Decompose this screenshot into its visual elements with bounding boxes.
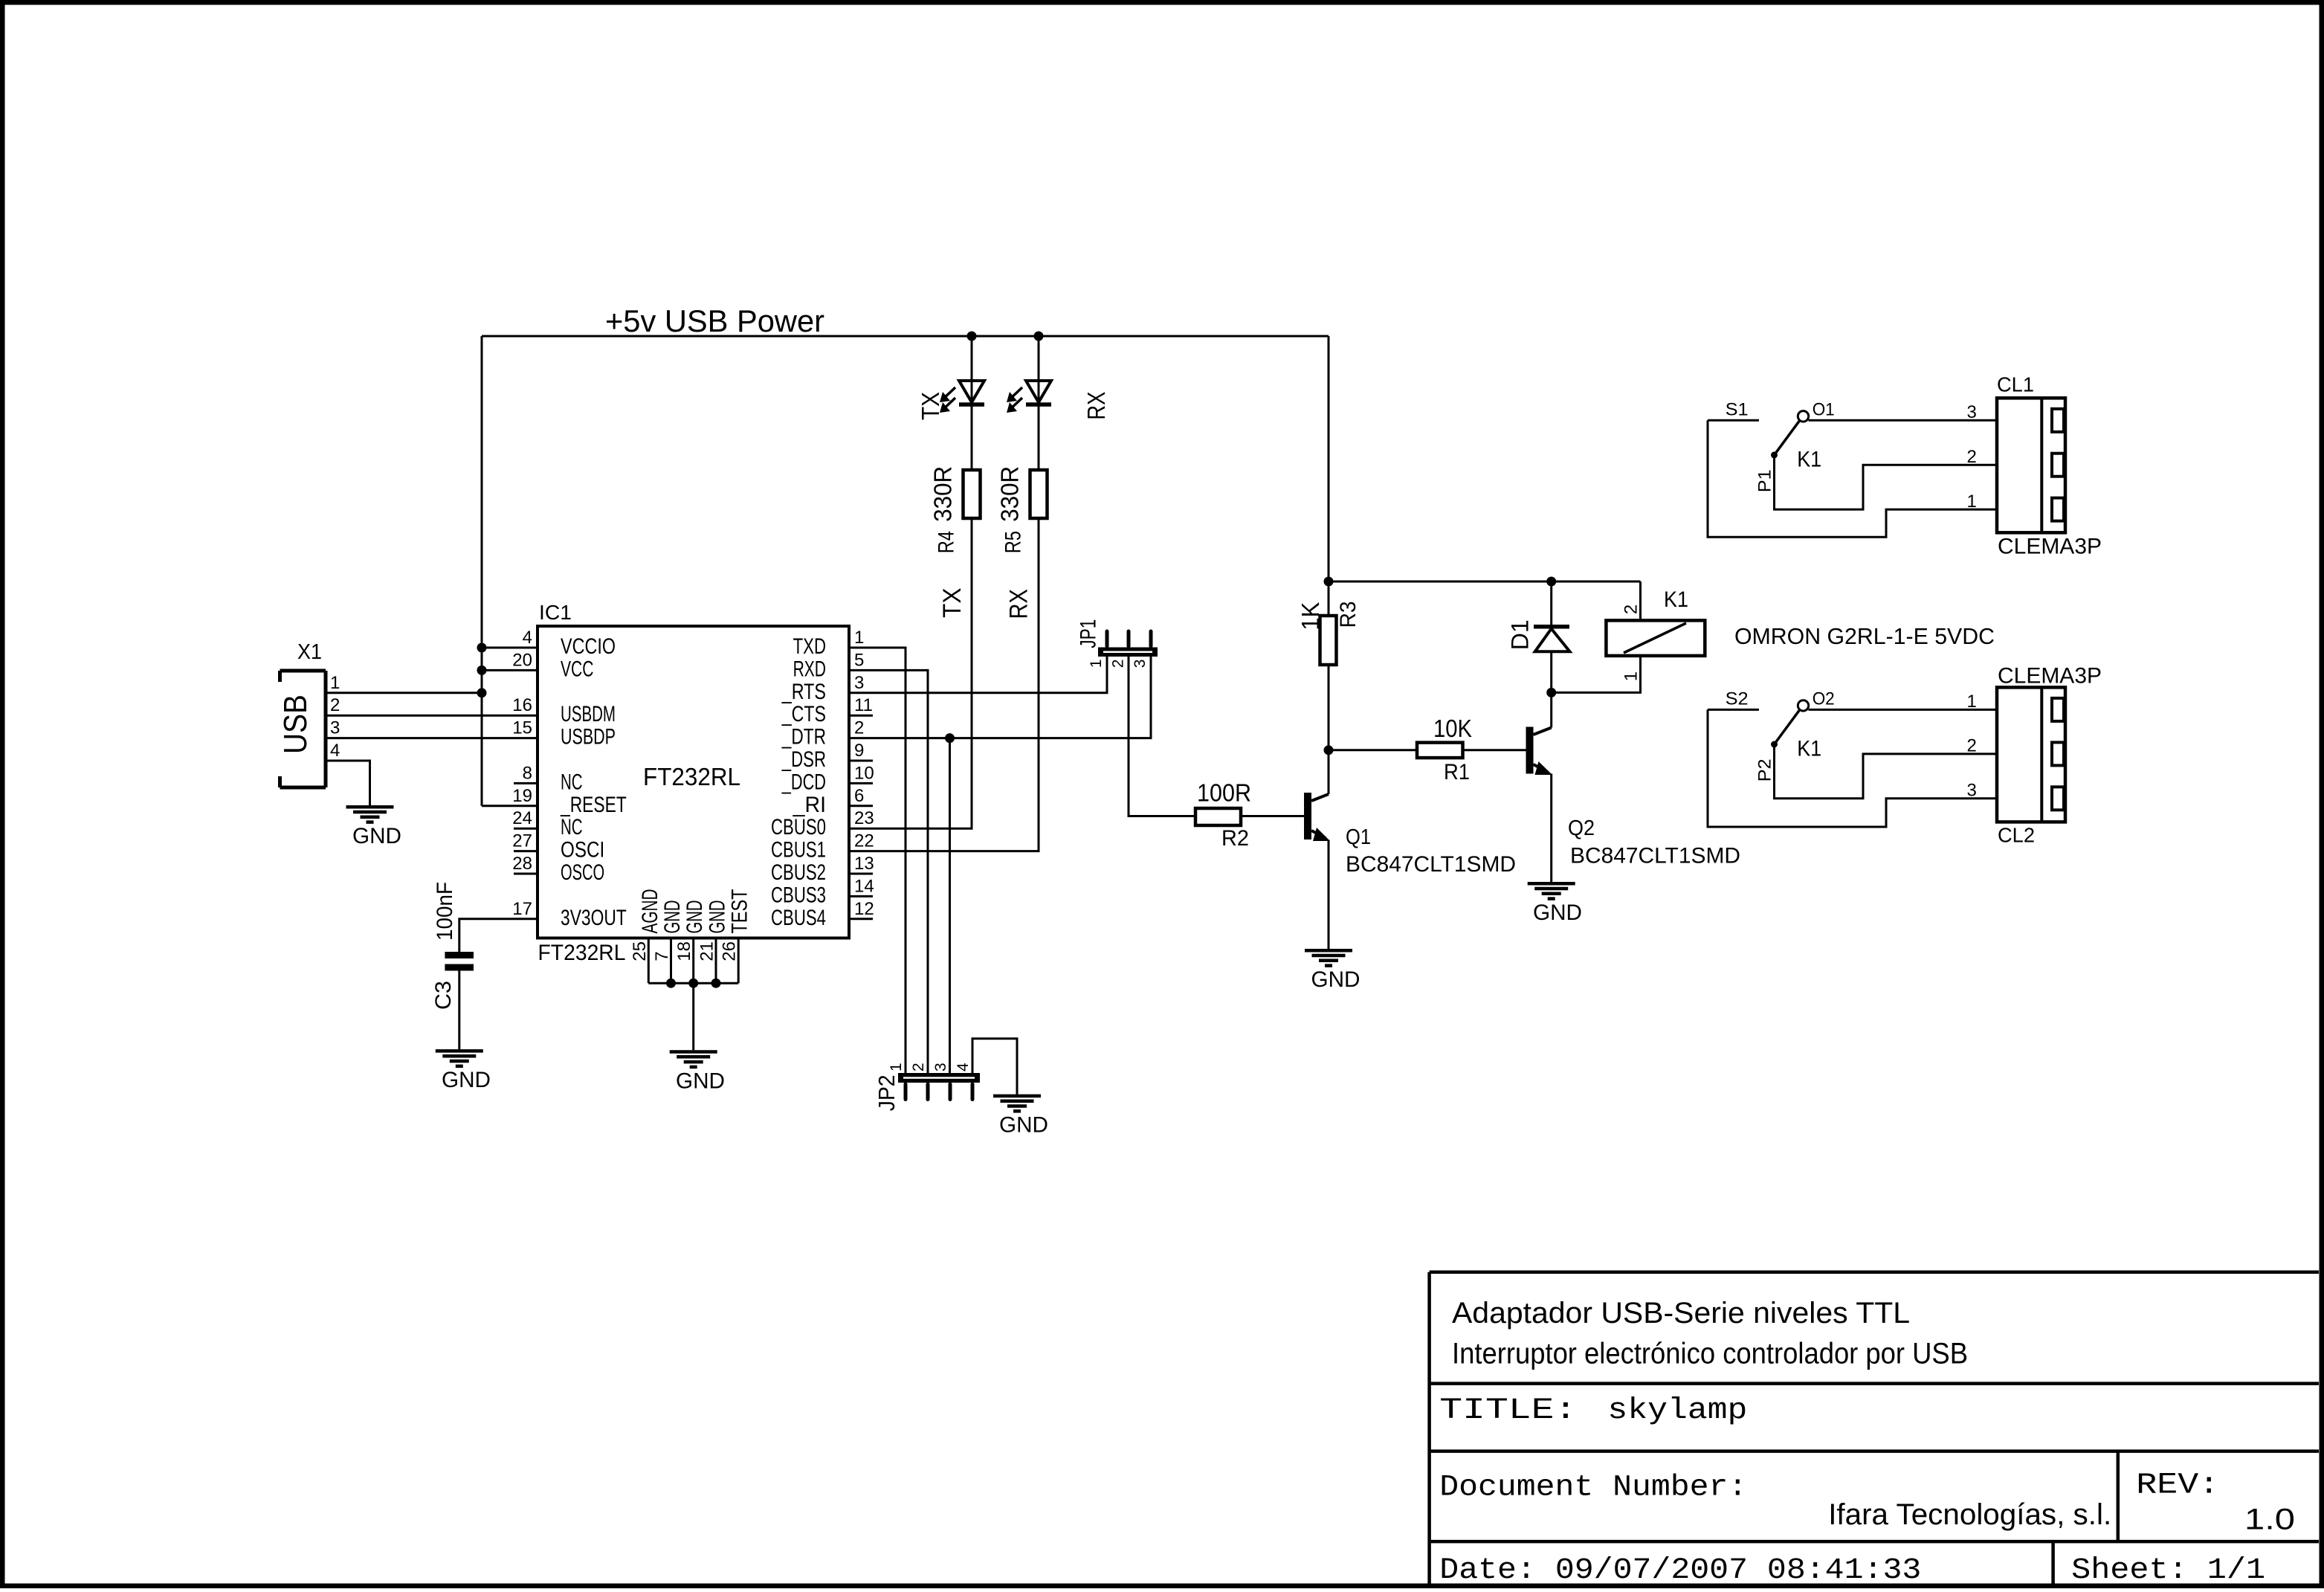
svg-text:Adaptador USB-Serie niveles TT: Adaptador USB-Serie niveles TTL: [1452, 1297, 1910, 1330]
svg-text:O1: O1: [1813, 400, 1835, 420]
svg-text:GND: GND: [1311, 967, 1360, 992]
wire RXD to JP2 pin2: [849, 670, 928, 1073]
svg-text:R1: R1: [1444, 760, 1470, 784]
transistor Q2 BC847CLT1SMD: [1526, 727, 1741, 868]
svg-text:GND: GND: [660, 900, 685, 934]
svg-text:CL1: CL1: [1997, 373, 2034, 396]
svg-text:22: 22: [854, 831, 874, 851]
svg-text:BC847CLT1SMD: BC847CLT1SMD: [1570, 843, 1740, 868]
svg-text:20: 20: [512, 650, 532, 670]
wire R3 bottom to Q1 collector node: [1328, 665, 1330, 750]
ground GND under Q2: [1528, 883, 1582, 925]
svg-text:K1: K1: [1797, 447, 1821, 471]
wire Q2 collector: [1550, 692, 1552, 727]
svg-text:1: 1: [330, 673, 340, 693]
ground GND under C3: [436, 1051, 491, 1092]
svg-text:1.0: 1.0: [2244, 1504, 2295, 1536]
svg-text:27: 27: [512, 831, 532, 851]
svg-text:3: 3: [932, 1063, 949, 1071]
svg-text:Ifara Tecnologías, s.l.: Ifara Tecnologías, s.l.: [1828, 1498, 2111, 1531]
resistor R2 100R: [1195, 779, 1251, 851]
IC1 pin 23 CBUS0: [771, 808, 874, 839]
svg-text:RX: RX: [1082, 392, 1110, 420]
wire +5v rail right drop to R3 column: [1328, 336, 1330, 616]
svg-text:4: 4: [955, 1063, 972, 1071]
svg-text:R3: R3: [1336, 601, 1360, 628]
svg-text:P1: P1: [1755, 469, 1775, 492]
svg-text:9: 9: [854, 741, 864, 761]
svg-text:28: 28: [512, 854, 532, 874]
junction R3 column to relay line: [1324, 577, 1334, 587]
svg-text:3: 3: [1967, 402, 1977, 422]
LED TX label: [917, 392, 944, 420]
junction on rail at TX LED column: [967, 332, 977, 341]
connector JP2 pin 1: [888, 1063, 905, 1071]
svg-text:CBUS1: CBUS1: [771, 838, 826, 863]
resistor R3 1K: [1297, 601, 1360, 665]
wire R2 to Q1 base: [1241, 815, 1304, 817]
svg-text:1: 1: [1088, 660, 1105, 668]
svg-text:IC1: IC1: [539, 601, 572, 624]
svg-text:12: 12: [854, 899, 874, 919]
LED RX label: [1082, 392, 1110, 420]
ground GND under IC1: [670, 1052, 725, 1094]
svg-text:TITLE:: TITLE:: [1439, 1394, 1577, 1428]
svg-text:3: 3: [330, 718, 340, 738]
svg-text:19: 19: [512, 786, 532, 806]
connector CL2 pin 3: [1967, 781, 1977, 801]
IC1 pin 15 USBDP: [512, 718, 616, 750]
svg-text:3V3OUT: 3V3OUT: [561, 906, 627, 930]
wire R3 top from rail: [1328, 581, 1330, 616]
svg-text:NC: NC: [561, 815, 583, 839]
svg-text:CLEMA3P: CLEMA3P: [1998, 663, 2102, 688]
svg-text:CBUS2: CBUS2: [771, 860, 826, 885]
svg-text:+5v USB Power: +5v USB Power: [605, 303, 824, 338]
svg-text:RXD: RXD: [793, 657, 826, 681]
svg-text:USBDP: USBDP: [561, 725, 616, 750]
svg-text:100nF: 100nF: [433, 882, 457, 941]
IC1 pin 4 VCCIO: [523, 628, 616, 659]
wire JP1 pin2 to R2: [1129, 657, 1195, 816]
svg-text:FT232RL: FT232RL: [538, 941, 626, 965]
svg-text:TEST: TEST: [728, 889, 752, 934]
svg-text:O2: O2: [1813, 689, 1835, 709]
svg-text:1: 1: [1967, 692, 1977, 712]
connector JP1 pin 1: [1088, 660, 1105, 668]
svg-text:USB: USB: [277, 695, 314, 754]
wire R5 to CBUS1: [849, 518, 1039, 851]
title block description line 2: [1452, 1337, 1968, 1370]
svg-text:_CTS: _CTS: [781, 702, 826, 726]
net label TX: [938, 588, 966, 619]
svg-text:REV:: REV:: [2136, 1469, 2219, 1503]
svg-text:13: 13: [854, 854, 874, 874]
svg-text:_RTS: _RTS: [781, 680, 826, 704]
svg-text:2: 2: [1967, 736, 1977, 756]
connector X1 pin 3: [330, 718, 340, 738]
connector X1 pin 1: [330, 673, 340, 693]
wire VCCIO feed: [482, 647, 538, 649]
node +5v USB Power net label: [605, 303, 824, 338]
IC1 pin 11 _CTS: [781, 695, 873, 726]
svg-text:4: 4: [523, 628, 532, 648]
IC1 pin 14 CBUS3: [771, 876, 874, 907]
wire X1 pin4 to ground: [326, 761, 370, 805]
wire LED to R5: [1038, 406, 1040, 470]
svg-text:3: 3: [1132, 660, 1149, 668]
svg-text:P2: P2: [1755, 758, 1775, 782]
IC1 pin 5 RXD: [793, 650, 865, 681]
wire JP2 pin4 to ground: [972, 1039, 1017, 1095]
svg-text:100R: 100R: [1197, 779, 1251, 807]
svg-text:USBDM: USBDM: [561, 702, 616, 726]
op-amp U1 : IC1 FT232RL box: [538, 601, 849, 965]
IC1 pin 3 _RTS: [781, 673, 864, 704]
svg-text:CBUS3: CBUS3: [771, 883, 826, 907]
wire node to R1: [1329, 749, 1417, 751]
connector JP2: [874, 1073, 980, 1111]
svg-text:GND: GND: [352, 824, 401, 848]
junction ground bus: [666, 979, 676, 988]
connector CL1 CLEMA3P: [1997, 373, 2102, 559]
wire S2 loop to CL2: [1708, 709, 1997, 827]
wire relay top line: [1329, 581, 1641, 583]
wire K1 pin1 to Q2 collector: [1552, 656, 1641, 693]
svg-text:1K: 1K: [1297, 602, 1324, 631]
svg-text:Q1: Q1: [1346, 825, 1371, 849]
wire LED to R4: [971, 406, 973, 470]
svg-text:CLEMA3P: CLEMA3P: [1998, 534, 2102, 558]
svg-text:Date: 09/07/2007 08:41:33: Date: 09/07/2007 08:41:33: [1439, 1554, 1921, 1588]
IC1 pin 22 CBUS1: [771, 831, 874, 863]
svg-text:Interruptor electrónico contro: Interruptor electrónico controlador por …: [1452, 1337, 1968, 1370]
svg-text:24: 24: [512, 808, 532, 828]
connector CL2 pin 1: [1967, 692, 1977, 712]
switch pivot pin P1: [1755, 469, 1775, 492]
IC1 pin 20 VCC: [512, 650, 593, 681]
wire +5v rail horizontal: [482, 335, 1329, 338]
title block frame: [1430, 1272, 2319, 1586]
svg-text:TX: TX: [917, 392, 944, 420]
svg-text:2: 2: [1110, 660, 1127, 668]
svg-text:2: 2: [330, 695, 340, 715]
svg-text:AGND: AGND: [638, 889, 662, 934]
switch blade K1: [1771, 710, 1821, 761]
connector CL1 pin 1: [1967, 492, 1977, 512]
junction ground bus: [688, 979, 698, 988]
wire O2 to CL2 top pin: [1809, 709, 1998, 711]
wire _RESET feed: [482, 805, 538, 807]
wire S1 loop to CL1: [1708, 420, 1997, 537]
wire _DTR to JP1 pin3: [849, 657, 1151, 738]
IC1 pin 27 OSCI: [512, 831, 604, 863]
IC1 pin 7 GND: [652, 900, 685, 984]
svg-text:VCC: VCC: [561, 657, 593, 681]
relay K1 pin 1: [1621, 671, 1642, 681]
svg-text:K1: K1: [1797, 736, 1821, 761]
svg-text:skylamp: skylamp: [1607, 1394, 1747, 1428]
wire +5v rail left drop to VCC column: [481, 336, 483, 806]
IC1 pin 17 3V3OUT: [512, 899, 627, 930]
svg-text:23: 23: [854, 808, 874, 828]
svg-text:_DSR: _DSR: [781, 747, 826, 772]
wire X1 pin3 to USBDP: [326, 737, 538, 739]
wire 3V3OUT to C3: [459, 919, 538, 952]
svg-text:25: 25: [630, 941, 650, 961]
title block Sheet field: [2071, 1554, 2265, 1588]
ground GND under JP2: [993, 1096, 1048, 1138]
connector X1 pin 4: [330, 741, 340, 761]
svg-text:26: 26: [720, 941, 740, 961]
svg-text:CL2: CL2: [1998, 823, 2035, 846]
label OMRON relay type: [1734, 623, 1995, 649]
connector JP2 pin 2: [910, 1063, 927, 1071]
svg-text:330R: 330R: [929, 466, 957, 522]
IC1 pin 10 _DCD: [781, 763, 874, 794]
wire _DTR branch to JP2 pin3: [949, 738, 951, 1073]
wire P1 to CL1 middle pin: [1775, 455, 1998, 509]
svg-text:2: 2: [1621, 605, 1642, 614]
wire Q2 emitter to ground: [1550, 774, 1552, 883]
title block Document Number field: [1439, 1471, 2111, 1531]
svg-text:OSCI: OSCI: [561, 838, 604, 863]
wire +5v to LED RX: [1038, 336, 1040, 381]
svg-text:OMRON G2RL-1-E 5VDC: OMRON G2RL-1-E 5VDC: [1734, 623, 1995, 649]
IC1 pin 21 GND: [697, 900, 730, 984]
svg-text:R5: R5: [1001, 531, 1026, 553]
svg-text:8: 8: [523, 763, 532, 783]
switch contact O1: [1798, 400, 1834, 422]
connector JP1: [1076, 619, 1158, 657]
svg-text:1: 1: [1967, 492, 1977, 512]
svg-text:_RESET: _RESET: [560, 793, 627, 817]
svg-text:14: 14: [854, 876, 874, 896]
capacitor C3 100nF: [431, 882, 474, 1010]
svg-text:BC847CLT1SMD: BC847CLT1SMD: [1346, 852, 1516, 877]
junction VCC node at VCC row: [477, 666, 487, 675]
svg-text:CBUS4: CBUS4: [771, 906, 826, 930]
svg-text:1: 1: [888, 1063, 905, 1071]
relay K1 pin 2: [1621, 605, 1642, 614]
resistor R1 10K: [1417, 715, 1472, 784]
wire TXD to JP2 pin1: [849, 648, 906, 1073]
svg-text:OSCO: OSCO: [561, 860, 604, 885]
title block TITLE field: [1439, 1394, 1747, 1428]
svg-text:TX: TX: [938, 588, 966, 619]
svg-text:K1: K1: [1664, 587, 1688, 612]
wire Q1 emitter to ground: [1328, 840, 1330, 950]
svg-text:Q2: Q2: [1568, 816, 1595, 840]
junction VCC node at VCCIO row: [477, 643, 487, 653]
wire K1 pin2 drop: [1639, 581, 1642, 620]
svg-text:16: 16: [512, 695, 532, 715]
svg-text:FT232RL: FT232RL: [643, 763, 740, 790]
svg-text:18: 18: [674, 941, 694, 961]
resistor R4 330R: [929, 466, 981, 553]
svg-text:X1: X1: [297, 640, 322, 664]
IC1 pin 9 _DSR: [781, 741, 873, 772]
wire O1 to CL1 top pin: [1809, 419, 1998, 422]
svg-text:JP2: JP2: [874, 1074, 900, 1111]
junction Q1 collector / R1 node: [1324, 745, 1334, 755]
diode D1: [1507, 581, 1570, 692]
svg-text:VCCIO: VCCIO: [561, 634, 616, 659]
switch blade K1: [1771, 421, 1821, 472]
connector CL2 pin 2: [1967, 736, 1977, 756]
net label RX: [1005, 589, 1033, 619]
switch S1 pole stub: [1708, 400, 1759, 421]
LED TX: [940, 381, 984, 413]
wire IC1 ground bus: [648, 983, 738, 1050]
connector CL1 pin 2: [1967, 447, 1977, 467]
svg-text:6: 6: [854, 786, 864, 806]
svg-text:Sheet: 1/1: Sheet: 1/1: [2071, 1554, 2265, 1588]
transistor Q1 BC847CLT1SMD: [1304, 793, 1516, 877]
connector JP2 pin 4: [955, 1063, 972, 1071]
svg-text:_RI: _RI: [793, 793, 826, 817]
junction ground bus: [711, 979, 721, 988]
wire P2 to CL2 middle pin: [1775, 744, 1998, 799]
connector JP1 pin 3: [1132, 660, 1149, 668]
wire R4 to CBUS0: [849, 518, 972, 828]
switch S2 pole stub: [1708, 689, 1759, 710]
svg-text:11: 11: [854, 695, 873, 715]
svg-text:17: 17: [512, 899, 532, 919]
svg-text:TXD: TXD: [793, 634, 826, 659]
wire VCC feed: [482, 669, 538, 671]
svg-text:NC: NC: [561, 770, 583, 794]
junction D1 bottom: [1546, 688, 1556, 697]
svg-text:15: 15: [512, 718, 532, 738]
connector CL1 pin 3: [1967, 402, 1977, 422]
svg-text:S2: S2: [1726, 689, 1749, 709]
svg-text:7: 7: [652, 951, 672, 961]
svg-text:_DTR: _DTR: [781, 725, 826, 750]
svg-text:Document Number:: Document Number:: [1439, 1471, 1747, 1504]
svg-text:2: 2: [910, 1063, 927, 1071]
svg-text:GND: GND: [706, 900, 730, 934]
svg-text:2: 2: [1967, 447, 1977, 467]
IC1 pin 8 NC: [514, 763, 583, 794]
title block description line 1: [1452, 1297, 1910, 1330]
svg-text:GND: GND: [682, 900, 707, 934]
IC1 pin 26 TEST: [720, 889, 752, 984]
wire R1 to Q2 base: [1463, 749, 1526, 751]
svg-text:JP1: JP1: [1076, 619, 1100, 648]
IC1 pin 1 TXD: [793, 628, 865, 659]
connector X1 pin 2: [330, 695, 340, 715]
LED RX: [1007, 381, 1051, 413]
connector X1 name: [297, 640, 322, 664]
IC1 pin 2 _DTR: [781, 718, 864, 750]
svg-text:GND: GND: [442, 1068, 491, 1092]
connector JP2 pin 3: [932, 1063, 949, 1071]
svg-text:R2: R2: [1221, 826, 1249, 851]
svg-text:5: 5: [854, 650, 864, 670]
wire X1 pin1 to VCC node: [326, 692, 482, 694]
svg-text:GND: GND: [676, 1069, 725, 1093]
svg-text:S1: S1: [1726, 400, 1749, 420]
junction VCC node at X1 pin1 row: [477, 688, 487, 697]
svg-text:CBUS0: CBUS0: [771, 815, 826, 839]
svg-text:21: 21: [697, 941, 717, 961]
svg-text:_DCD: _DCD: [781, 770, 826, 794]
svg-text:4: 4: [330, 741, 340, 761]
title block REV field: [2136, 1469, 2295, 1536]
IC1 pin 18 GND: [674, 900, 707, 984]
svg-text:1: 1: [854, 628, 864, 648]
junction _DTR to JP2 branch: [945, 733, 955, 743]
title block Date field: [1439, 1554, 1921, 1588]
svg-text:GND: GND: [999, 1113, 1048, 1138]
connector JP1 pin 2: [1110, 660, 1127, 668]
ground GND under Q1: [1305, 950, 1360, 992]
resistor R5 330R: [996, 466, 1048, 553]
wire C3 to ground: [458, 971, 460, 1050]
svg-text:330R: 330R: [996, 466, 1024, 522]
connector CL2 CLEMA3P: [1997, 663, 2102, 846]
svg-text:3: 3: [1967, 781, 1977, 801]
IC1 pin 19 _RESET: [512, 786, 627, 817]
wire Q1 collector: [1328, 750, 1330, 794]
IC1 pin 6 _RI: [793, 786, 873, 817]
wire +5v to LED TX: [971, 336, 973, 381]
svg-text:C3: C3: [431, 981, 456, 1010]
svg-text:1: 1: [1621, 671, 1642, 681]
IC1 pin 25 AGND: [630, 889, 662, 984]
svg-text:3: 3: [854, 673, 864, 693]
junction D1 top: [1546, 577, 1556, 587]
IC1 pin 28 OSCO: [512, 854, 604, 885]
relay K1 coil: [1606, 587, 1705, 656]
svg-text:RX: RX: [1005, 589, 1033, 619]
IC1 pin 16 USBDM: [512, 695, 616, 726]
svg-text:R4: R4: [935, 531, 959, 553]
wire X1 pin2 to USBDM: [326, 715, 538, 717]
IC1 pin 24 NC: [512, 808, 582, 839]
IC1 pin 12 CBUS4: [771, 899, 874, 930]
ground GND under X1: [346, 807, 402, 848]
junction on rail at RX LED column: [1034, 332, 1044, 341]
switch contact O2: [1798, 689, 1834, 712]
connector X1 USB body: [277, 671, 326, 787]
svg-text:2: 2: [854, 718, 864, 738]
svg-text:10K: 10K: [1433, 715, 1472, 742]
IC1 pin 13 CBUS2: [771, 854, 874, 885]
svg-text:10: 10: [854, 763, 874, 783]
svg-text:D1: D1: [1507, 619, 1534, 650]
wire _RTS to JP1 pin1: [849, 657, 1107, 693]
svg-text:GND: GND: [1533, 900, 1582, 925]
switch pivot pin P2: [1755, 758, 1775, 782]
